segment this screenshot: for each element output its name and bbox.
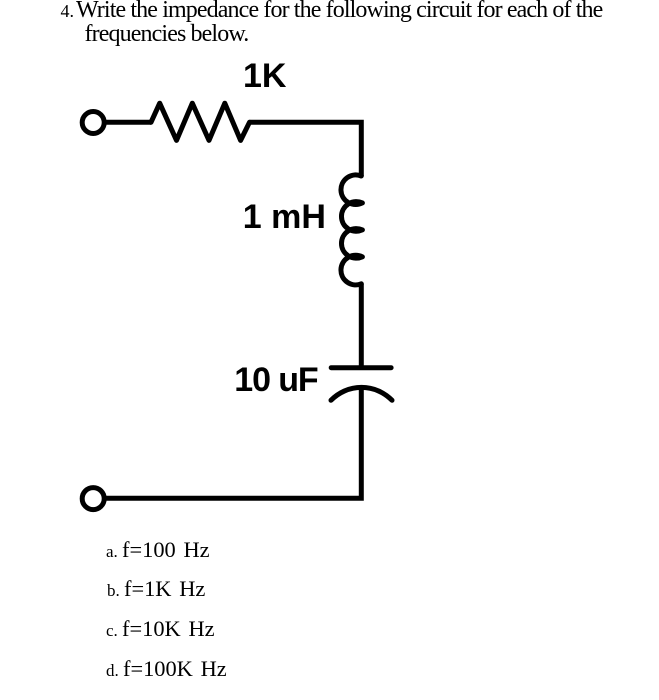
- terminal T1 (top input): [82, 112, 104, 134]
- label R1 value 1K: [243, 57, 286, 96]
- wire: inductor L1 to capacitor C1: [359, 284, 364, 368]
- terminal T2 (bottom input): [82, 488, 104, 510]
- wire: T1 to resistor R1: [107, 120, 152, 125]
- capacitor C1 curved bottom plate: [331, 387, 392, 400]
- title text line 2: [85, 21, 249, 48]
- inductor L1 (4 turns): [341, 175, 362, 285]
- list item b: [107, 576, 205, 602]
- list item a: [106, 537, 210, 563]
- label C1 value 10 uF: [234, 361, 317, 400]
- wire: resistor R1 to corner, down to inductor L1: [250, 122, 362, 176]
- list item d: [106, 656, 227, 682]
- list item c: [106, 616, 215, 642]
- title text line number: [61, 1, 75, 22]
- resistor R1: [151, 103, 250, 140]
- wire: capacitor C1 down and left to T2: [106, 389, 361, 499]
- label L1 value 1 mH: [243, 198, 326, 237]
- title text line 1: [76, 0, 602, 24]
- capacitor C1 top plate: [331, 365, 391, 370]
